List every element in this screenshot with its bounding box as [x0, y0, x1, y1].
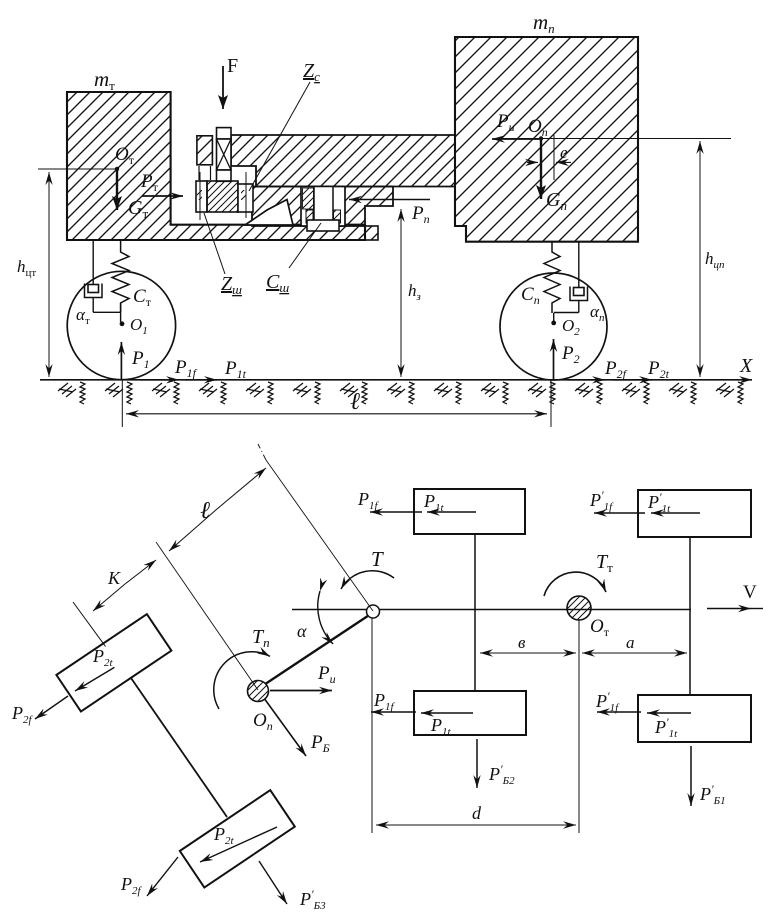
centre O_p (hatched): [248, 681, 273, 734]
velocity V arrow: [707, 582, 763, 609]
force P_2t on top-left trailer wheel: [75, 646, 114, 691]
wheel rect bottom-middle: [414, 691, 526, 735]
ground hatching marks: [58, 382, 743, 404]
construction line perpendicular through joint: [258, 444, 373, 611]
svg-text:F: F: [227, 55, 238, 77]
label Z_sh with leader: [204, 213, 242, 297]
right tyre spring C_p: [521, 242, 560, 313]
drawbar (trailer axis): [266, 616, 369, 684]
ground line with X axis: [40, 355, 753, 380]
connector lines under rect A: [199, 166, 211, 180]
force P_2f on top-left trailer wheel: [11, 696, 68, 726]
forces P'_1f / P'_1t on top-right wheel: [589, 488, 700, 515]
body m_p: right block: [455, 37, 638, 242]
reaction P_2 arrow: [554, 339, 580, 380]
left damper alpha_t: [76, 240, 121, 327]
dimension l (joint to O_p): [169, 468, 266, 551]
left wheel: [67, 271, 175, 379]
torque T_t at O_t: [544, 551, 613, 596]
dimension l (wheelbase): [122, 380, 551, 427]
ground force P_1f: [140, 357, 198, 380]
lateral force P_B at O_p: [265, 700, 330, 757]
svg-text:e: e: [560, 143, 568, 162]
piston block Z_sh: [196, 172, 253, 220]
svg-text:V: V: [743, 582, 757, 603]
wheel rect bottom-right: [638, 695, 751, 742]
svg-text:K: K: [107, 568, 121, 588]
force P_2f on bottom-right trailer wheel: [120, 857, 178, 897]
construction line perpendicular through O_p: [156, 542, 258, 690]
cylinder C_sh cavity: [301, 187, 345, 232]
angle alpha arc: [297, 591, 333, 644]
drawbar wedge (white): [245, 200, 293, 226]
hitch bearing column: [217, 128, 232, 182]
label m_t: [94, 67, 115, 93]
svg-text:T: T: [371, 547, 384, 571]
trailer axle extension line: [73, 602, 106, 647]
slab under beam with stepped right end: [252, 187, 393, 227]
torque T at joint: [341, 547, 394, 589]
svg-text:ℓ: ℓ: [200, 498, 210, 524]
wheel rect top-right: [638, 490, 751, 537]
dashed vertical through O_t: [578, 620, 580, 833]
forces P'_1f / P'_1t on bottom-right wheel: [595, 689, 691, 740]
left tyre spring C_t: [112, 240, 152, 312]
trailer wheel bottom-right: [180, 790, 295, 887]
ground force P_2t: [612, 358, 670, 381]
label C_sh with leader: [266, 223, 321, 295]
ground force P_1t: [185, 358, 247, 381]
force P_p arrow: [349, 200, 430, 227]
dimension d: [376, 803, 576, 825]
hub point O_1: [120, 315, 148, 337]
dimension K (O_p to axle): [93, 560, 156, 611]
centre O_t (hatched): [567, 596, 610, 639]
right damper alpha_p: [554, 242, 605, 324]
middle axle vertical: [474, 534, 476, 691]
svg-text:в: в: [518, 633, 526, 652]
articulation joint: [367, 605, 380, 618]
svg-text:α: α: [297, 621, 307, 641]
forces P_1f / P_1t on bottom-middle wheel: [371, 690, 473, 738]
force P'_B3: [259, 861, 326, 912]
point O_p, inertia force P_i, weight G_p, offset e: [492, 111, 567, 213]
dimension h_3: [401, 209, 421, 377]
torque T_p at O_p: [214, 626, 270, 709]
point O_t with G_t weight arrow: [115, 144, 149, 221]
force P'_B2: [477, 739, 515, 788]
small hatched rect A left of column: [197, 136, 213, 165]
forces P_1f / P_1t on top-middle wheel: [357, 489, 476, 514]
svg-text:ℓ: ℓ: [350, 389, 360, 415]
dimension h_cp: [700, 141, 725, 377]
label Z_c with leader: [249, 60, 320, 191]
right axle vertical: [689, 537, 691, 695]
force P_2t on bottom-right trailer wheel: [200, 824, 277, 862]
inertia force P_i at O_p: [270, 663, 336, 691]
ground force P_2f: [568, 358, 628, 381]
offset e dimension: [527, 135, 571, 180]
svg-text:a: a: [626, 633, 635, 652]
dimension a: [582, 633, 687, 653]
svg-text:d: d: [472, 803, 482, 823]
label m_p: [533, 10, 555, 36]
right wheel: [500, 273, 607, 380]
bar end step: [365, 226, 378, 240]
svg-text:X: X: [739, 355, 753, 377]
reference line through O_p (for h_cp): [495, 138, 731, 140]
hub point O_2: [551, 316, 580, 338]
force P_t arrow: [140, 171, 183, 196]
force F arrow: [223, 55, 238, 109]
dimension b: [480, 633, 576, 653]
trailer wheel top-left: [56, 614, 171, 711]
trailer axle line: [131, 678, 227, 817]
force P'_B1: [691, 746, 726, 807]
body m_t: left block with bottom bar (L-shape): [67, 92, 365, 240]
tractor longitudinal axis: [292, 609, 691, 611]
middle beam (hatched): [231, 135, 455, 187]
reaction P_1 arrow: [121, 342, 149, 380]
dimension h_ct: [17, 169, 116, 377]
wheel rect top-middle: [414, 489, 525, 534]
dashed vertical through joint: [371, 618, 373, 833]
